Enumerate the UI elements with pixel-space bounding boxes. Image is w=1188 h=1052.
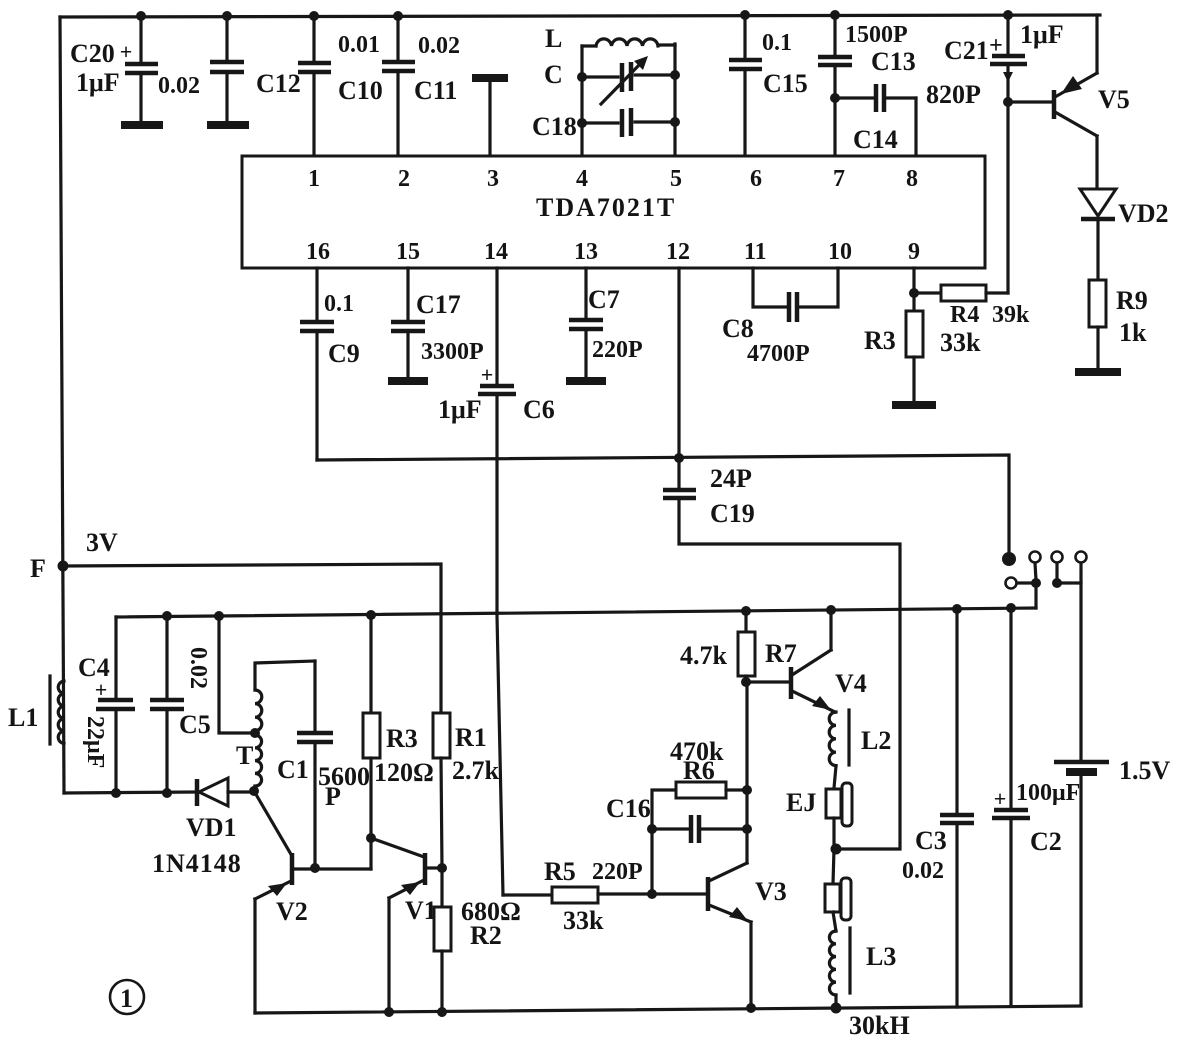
node R7 top on bus B	[741, 606, 751, 616]
svg-text:+: +	[994, 786, 1007, 811]
svg-text:4: 4	[576, 166, 588, 192]
label 680ohm	[461, 897, 521, 926]
capacitor C8 (pins 11-10)	[753, 268, 838, 322]
pin number 8	[906, 166, 918, 192]
svg-text:4.7k: 4.7k	[680, 641, 728, 670]
capacitor C3	[940, 609, 974, 1007]
switch contact terminal 1	[1030, 552, 1041, 581]
svg-text:1μF: 1μF	[1020, 20, 1064, 49]
inductor L of tank	[596, 39, 658, 46]
label 30kH	[849, 1011, 910, 1040]
pin number 2	[398, 166, 410, 192]
wire F line to R1	[63, 564, 441, 713]
node EJ bottom junction	[831, 844, 842, 855]
node pin 9 junction	[909, 288, 919, 298]
node C12 tap	[309, 11, 319, 21]
label 1k	[1119, 318, 1147, 347]
wire pin 14 long vertical	[495, 268, 498, 384]
svg-text:7: 7	[833, 166, 845, 192]
svg-text:C8: C8	[722, 314, 754, 343]
pin number 15	[396, 239, 420, 265]
wire bus B (main horizontal)	[116, 608, 1036, 617]
label 0.1 (C9)	[324, 291, 354, 317]
label P	[325, 782, 341, 811]
svg-text:11: 11	[744, 239, 767, 265]
svg-text:L3: L3	[866, 942, 896, 971]
node C13 tap	[830, 10, 840, 20]
svg-text:EJ: EJ	[786, 788, 816, 817]
circled figure number 1	[110, 980, 144, 1014]
resistor R7 4.7k	[738, 611, 755, 682]
wire switch to bus B	[1034, 583, 1037, 608]
switch contact terminal 2	[1052, 552, 1063, 581]
label EJ	[786, 788, 816, 817]
svg-text:V2: V2	[276, 897, 308, 926]
svg-text:R7: R7	[765, 639, 797, 668]
label R6	[683, 756, 715, 785]
label 1uF	[76, 68, 120, 97]
battery B1 1.5V	[1054, 762, 1109, 1005]
svg-text:C14: C14	[853, 125, 898, 154]
label 4700P	[747, 341, 810, 367]
node C4 bottom	[111, 788, 121, 798]
svg-text:12: 12	[666, 239, 690, 265]
label 100uF	[1016, 780, 1080, 806]
svg-text:L: L	[545, 24, 562, 53]
label V5	[1098, 85, 1130, 114]
capacitor C14 (pins 7-8)	[835, 84, 916, 156]
transistor V4	[746, 610, 835, 712]
svg-text:V4: V4	[835, 669, 867, 698]
svg-text:13: 13	[574, 239, 598, 265]
resistor R5 33k	[503, 887, 652, 903]
capacitor C18 of tank	[582, 108, 675, 137]
node T tap on bus B	[214, 611, 224, 621]
svg-text:+: +	[989, 33, 1003, 59]
node C21 tap	[1003, 10, 1013, 20]
resistor R9	[1089, 280, 1106, 368]
pin number 16	[306, 239, 330, 265]
wire bus B to T center tap	[219, 616, 252, 733]
label 4.7k	[680, 641, 728, 670]
label 1uF (C21)	[1020, 20, 1064, 49]
transistor V1	[371, 838, 442, 1012]
node R2 bottom on bottom bus	[437, 1007, 447, 1017]
label V1	[405, 896, 437, 925]
label T	[236, 741, 253, 770]
svg-text:C12: C12	[256, 69, 301, 98]
capacitor C10 (pin 2)	[382, 16, 415, 156]
svg-text:C20: C20	[70, 39, 115, 68]
capacitor C13 (pin 7)	[818, 15, 852, 156]
label R3 (33k)	[864, 326, 896, 355]
node tank right upper	[670, 70, 680, 80]
svg-text:1: 1	[308, 166, 320, 192]
svg-text:C7: C7	[588, 285, 620, 314]
svg-text:820P: 820P	[926, 80, 981, 109]
svg-text:30kH: 30kH	[849, 1011, 910, 1040]
earphone jack lower	[825, 849, 851, 931]
switch lower contact	[1006, 578, 1034, 589]
label C21	[944, 36, 989, 65]
resistor R6 470k	[652, 782, 747, 829]
label R4	[950, 302, 979, 328]
node V4 collector on bus B	[826, 605, 836, 615]
label V2	[276, 897, 308, 926]
svg-text:C: C	[544, 60, 563, 89]
label C16	[606, 794, 651, 823]
tank circuit frame (pins 4-5)	[582, 44, 675, 156]
label R9	[1116, 286, 1148, 315]
node F	[58, 561, 69, 572]
svg-text:3: 3	[487, 166, 499, 192]
inductor L2	[829, 710, 849, 788]
svg-text:C4: C4	[78, 653, 110, 682]
svg-text:1μF: 1μF	[438, 395, 482, 424]
label C2	[1030, 827, 1062, 856]
wire bus A (switched supply)	[317, 455, 1009, 552]
label 220P (C16)	[592, 859, 643, 885]
label 220P (C7)	[592, 337, 643, 363]
label C7	[588, 285, 620, 314]
svg-text:C6: C6	[523, 395, 555, 424]
svg-text:1N4148: 1N4148	[152, 849, 242, 878]
svg-text:C3: C3	[915, 826, 947, 855]
svg-text:10: 10	[828, 239, 852, 265]
pin number 12	[666, 239, 690, 265]
node switch junction b	[1052, 578, 1062, 588]
inductor L1 antenna coil	[50, 676, 64, 744]
svg-text:C10: C10	[338, 76, 383, 105]
label 39k	[992, 302, 1030, 328]
svg-text:0.02: 0.02	[185, 647, 211, 689]
pin number 3	[487, 166, 499, 192]
ground bar on pin 3	[472, 78, 508, 156]
wire bottom-left horizontal	[64, 792, 196, 793]
svg-text:R3: R3	[386, 724, 418, 753]
pin number 7	[833, 166, 845, 192]
svg-text:V1: V1	[405, 896, 437, 925]
wire pin 9 stub	[912, 268, 915, 311]
resistor R4 39k	[914, 285, 1008, 301]
label 0.02	[158, 73, 200, 99]
svg-text:+: +	[481, 362, 494, 387]
svg-text:R9: R9	[1116, 286, 1148, 315]
svg-text:R4: R4	[950, 302, 979, 328]
label C14	[853, 125, 898, 154]
label C19	[710, 499, 755, 528]
switch S pole node	[1002, 552, 1016, 566]
svg-text:100μF: 100μF	[1016, 780, 1080, 806]
svg-text:33k: 33k	[563, 906, 604, 935]
label 1500P	[845, 22, 908, 48]
svg-text:C1: C1	[277, 755, 309, 784]
label 1uF (C6)	[438, 395, 482, 424]
ground under C7	[566, 377, 606, 385]
capacitor 0.02 bypass	[210, 16, 244, 121]
transistor V2	[254, 791, 371, 1013]
label C13	[871, 47, 916, 76]
pin number 13	[574, 239, 598, 265]
label 0.02 vertical (C5)	[185, 647, 211, 689]
pin number 10	[828, 239, 852, 265]
label 22uF vertical	[82, 716, 108, 768]
wire switch b to battery column	[1057, 583, 1081, 762]
node R6 right junction	[742, 785, 752, 795]
node tank left upper	[577, 72, 587, 82]
label R2	[470, 921, 502, 950]
resistor R1	[433, 713, 450, 868]
svg-text:5: 5	[670, 166, 682, 192]
wire top supply rail	[60, 15, 1100, 17]
label 120ohm	[374, 758, 434, 787]
svg-text:C9: C9	[328, 339, 360, 368]
svg-text:2: 2	[398, 166, 410, 192]
label 24P	[710, 464, 752, 493]
svg-text:R2: R2	[470, 921, 502, 950]
pin number 4	[576, 166, 588, 192]
transistor V3	[652, 682, 751, 1008]
svg-text:VD1: VD1	[186, 813, 237, 842]
node 0.02 cap tap	[222, 11, 232, 21]
svg-text:120Ω: 120Ω	[374, 758, 434, 787]
label 5600	[318, 762, 370, 791]
svg-text:C5: C5	[179, 710, 211, 739]
node C3 tap on bus B	[952, 604, 962, 614]
label V3	[755, 877, 787, 906]
svg-text:0.1: 0.1	[762, 30, 792, 56]
svg-text:C16: C16	[606, 794, 651, 823]
svg-text:2.7k: 2.7k	[452, 756, 500, 785]
svg-text:V3: V3	[755, 877, 787, 906]
node pin 12 on bus A	[674, 453, 684, 463]
transistor V5	[1008, 15, 1097, 188]
diode VD2	[1080, 189, 1116, 280]
node tank left lower	[577, 118, 587, 128]
node C20 tap	[136, 11, 146, 21]
label C15	[763, 69, 808, 98]
label C4	[78, 653, 110, 682]
node R3/V1 junction	[366, 833, 376, 843]
svg-text:1μF: 1μF	[76, 68, 120, 97]
label VD1	[186, 813, 237, 842]
svg-text:39k: 39k	[992, 302, 1030, 328]
wire bus B left drop to C4	[114, 617, 117, 698]
diode VD1 1N4148	[197, 778, 253, 806]
svg-text:1k: 1k	[1119, 318, 1147, 347]
label C11	[414, 76, 457, 105]
node C16 left junction	[647, 824, 657, 834]
capacitor C21	[989, 15, 1027, 102]
capacitor C15 (pin 6)	[729, 15, 762, 156]
svg-text:9: 9	[908, 239, 920, 265]
pin number 6	[750, 166, 762, 192]
label L2	[861, 726, 891, 755]
label 3V	[86, 528, 118, 557]
ground under R9	[1075, 368, 1121, 376]
wire V2 base riser to R3	[369, 838, 372, 869]
wire C16 left leg	[650, 829, 653, 894]
pin number 1	[308, 166, 320, 192]
svg-text:1.5V: 1.5V	[1119, 756, 1171, 785]
svg-text:8: 8	[906, 166, 918, 192]
pin number 14	[484, 239, 508, 265]
node tank right lower	[670, 117, 680, 127]
svg-text:0.1: 0.1	[324, 291, 354, 317]
svg-text:L2: L2	[861, 726, 891, 755]
node V3 emitter on bottom bus	[746, 1003, 756, 1013]
label 33k (R5)	[563, 906, 604, 935]
label L	[545, 24, 562, 53]
svg-text:R5: R5	[544, 857, 576, 886]
label 33k	[940, 328, 981, 357]
label VD2	[1118, 199, 1169, 228]
svg-text:1500P: 1500P	[845, 22, 908, 48]
node switch junction a	[1031, 578, 1041, 588]
svg-text:3V: 3V	[86, 528, 118, 557]
node C14 left junction	[830, 93, 840, 103]
ground under C17	[388, 377, 428, 385]
svg-text:C11: C11	[414, 76, 457, 105]
svg-text:+: +	[120, 39, 133, 64]
node R3 top on bus B	[366, 610, 376, 620]
svg-text:T: T	[236, 741, 253, 770]
node C16 right junction	[742, 824, 752, 834]
svg-text:24P: 24P	[710, 464, 752, 493]
pin number 9	[908, 239, 920, 265]
label 0.02 (C11)	[418, 33, 460, 59]
label L3	[866, 942, 896, 971]
node V1 emitter on bottom bus	[384, 1007, 394, 1017]
svg-text:6: 6	[750, 166, 762, 192]
label 0.02 (C3)	[902, 858, 944, 884]
variable capacitor C of tank	[582, 56, 675, 104]
label C20	[70, 39, 115, 68]
node VD1/T junction	[249, 786, 259, 796]
node R7/V4 base junction	[741, 677, 751, 687]
svg-text:4700P: 4700P	[747, 341, 810, 367]
svg-text:1: 1	[120, 984, 133, 1013]
wire left vertical rail	[60, 17, 64, 793]
wire C21 junction down to R4	[1006, 102, 1009, 293]
pin number 11	[744, 239, 767, 265]
ground under C20	[121, 121, 163, 129]
svg-text:L1: L1	[8, 703, 38, 732]
label L1	[8, 703, 38, 732]
svg-text:C18: C18	[532, 112, 577, 141]
label R5	[544, 857, 576, 886]
svg-text:16: 16	[306, 239, 330, 265]
capacitor C16	[652, 815, 747, 843]
svg-text:VD2: VD2	[1118, 199, 1169, 228]
label C5	[179, 710, 211, 739]
label C10	[338, 76, 383, 105]
capacitor C2 electrolytic	[992, 608, 1030, 1006]
label C1	[277, 755, 309, 784]
ground under 0.02 cap	[207, 121, 249, 129]
capacitor C4 electrolytic	[95, 677, 135, 793]
label C6	[523, 395, 555, 424]
svg-text:22μF: 22μF	[82, 716, 108, 768]
label R1	[455, 723, 487, 752]
svg-text:15: 15	[396, 239, 420, 265]
capacitor C17 (pin 15)	[391, 268, 425, 378]
svg-text:C13: C13	[871, 47, 916, 76]
label C17	[416, 290, 461, 319]
label C8	[722, 314, 754, 343]
svg-text:F: F	[30, 554, 46, 583]
node C1 bottom junction	[310, 863, 320, 873]
capacitor C9 (pin 16)	[300, 268, 334, 460]
node V3 base junction	[647, 889, 657, 899]
label 470k	[670, 737, 724, 766]
capacitor C12 (pin 1)	[298, 16, 331, 156]
capacitor C7 (pin 13)	[569, 268, 603, 378]
node C5 tap on bus B	[162, 611, 172, 621]
label C12	[256, 69, 301, 98]
capacitor C20	[120, 16, 158, 121]
svg-text:0.02: 0.02	[902, 858, 944, 884]
label 820P	[926, 80, 981, 109]
wire bottom bus	[255, 1006, 1081, 1013]
svg-text:33k: 33k	[940, 328, 981, 357]
svg-text:C21: C21	[944, 36, 989, 65]
svg-text:0.02: 0.02	[158, 73, 200, 99]
svg-text:14: 14	[484, 239, 508, 265]
svg-text:P: P	[325, 782, 341, 811]
svg-text:R6: R6	[683, 756, 715, 785]
resistor R3 120ohm	[363, 615, 380, 838]
label 0.1	[762, 30, 792, 56]
label F	[30, 554, 46, 583]
label C9	[328, 339, 360, 368]
label 0.01	[338, 32, 380, 58]
pin number 5	[670, 166, 682, 192]
label R3 (120)	[386, 724, 418, 753]
svg-text:R3: R3	[864, 326, 896, 355]
svg-text:C15: C15	[763, 69, 808, 98]
resistor R3 33k	[906, 311, 923, 401]
svg-text:C2: C2	[1030, 827, 1062, 856]
label 2.7k	[452, 756, 500, 785]
svg-text:V5: V5	[1098, 85, 1130, 114]
ground under R3	[892, 401, 936, 409]
switch contact terminal 3	[1076, 552, 1087, 584]
svg-text:3300P: 3300P	[421, 339, 484, 365]
node T center tap	[250, 728, 260, 738]
node C15 tap	[740, 10, 750, 20]
svg-text:C19: C19	[710, 499, 755, 528]
capacitor C6 electrolytic (pin 14)	[478, 362, 516, 895]
svg-text:220P: 220P	[592, 859, 643, 885]
label C3	[915, 826, 947, 855]
label C	[544, 60, 563, 89]
label C18	[532, 112, 577, 141]
label R7	[765, 639, 797, 668]
svg-text:220P: 220P	[592, 337, 643, 363]
svg-text:R1: R1	[455, 723, 487, 752]
resistor R2 680ohm	[434, 868, 451, 1012]
node V1 collector junction	[437, 863, 447, 873]
capacitor C19	[663, 490, 900, 849]
svg-text:C17: C17	[416, 290, 461, 319]
transformer T coil	[255, 661, 315, 791]
label V4	[835, 669, 867, 698]
IC U1 TDA7021T	[242, 156, 985, 268]
node C10 tap	[393, 11, 403, 21]
capacitor C1	[297, 661, 333, 868]
label 3300P	[421, 339, 484, 365]
